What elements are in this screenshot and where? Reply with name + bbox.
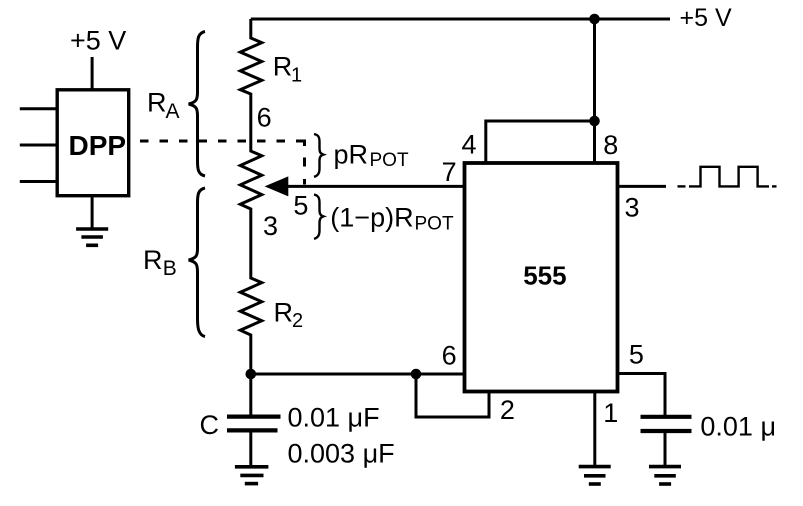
- svg-text:2: 2: [292, 310, 303, 332]
- svg-text:1: 1: [603, 398, 618, 428]
- svg-text:(1−p)R: (1−p)R: [330, 203, 413, 233]
- svg-text:DPP: DPP: [69, 130, 127, 161]
- svg-text:1: 1: [291, 64, 302, 86]
- svg-text:pR: pR: [334, 139, 369, 169]
- svg-text:R: R: [147, 87, 167, 117]
- svg-text:7: 7: [442, 157, 457, 187]
- svg-text:0.003 μF: 0.003 μF: [288, 438, 395, 468]
- svg-text:6: 6: [442, 341, 457, 371]
- svg-text:R: R: [273, 51, 293, 81]
- svg-text:+5 V: +5 V: [70, 25, 126, 55]
- svg-text:C: C: [200, 410, 220, 440]
- svg-text:2: 2: [500, 395, 515, 425]
- svg-text:R: R: [143, 245, 163, 275]
- svg-text:4: 4: [462, 129, 477, 159]
- svg-text:5: 5: [293, 191, 308, 221]
- svg-text:R: R: [274, 298, 294, 328]
- svg-text:POT: POT: [370, 150, 409, 171]
- svg-text:3: 3: [625, 192, 640, 222]
- svg-text:POT: POT: [415, 213, 454, 234]
- svg-text:0.01 μ: 0.01 μ: [700, 412, 776, 442]
- svg-text:3: 3: [263, 211, 278, 241]
- svg-text:0.01 μF: 0.01 μF: [288, 402, 380, 432]
- svg-text:555: 555: [523, 260, 566, 290]
- svg-text:8: 8: [603, 130, 618, 160]
- svg-text:B: B: [163, 257, 177, 280]
- svg-text:6: 6: [257, 103, 272, 133]
- svg-text:A: A: [166, 100, 180, 123]
- svg-text:+5 V: +5 V: [680, 4, 732, 32]
- svg-text:5: 5: [629, 339, 644, 369]
